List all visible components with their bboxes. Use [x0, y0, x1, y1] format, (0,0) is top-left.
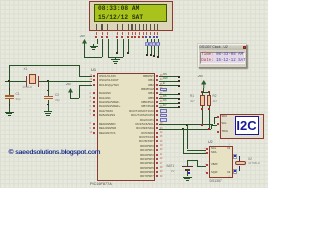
U1 left pins	[93, 75, 95, 77]
wire VEE/RW to ground	[108, 39, 109, 58]
ground (LCD VSS)	[93, 44, 94, 46]
PIC microcontroller U1	[91, 68, 96, 72]
resistor R1	[202, 92, 203, 95]
power +5V (MCLR)	[66, 83, 71, 86]
wire SCL (RC3)	[159, 124, 214, 125]
DS1307 Clock popup window	[198, 44, 248, 68]
U2 crystal pins	[233, 154, 238, 159]
watermark text	[9, 149, 101, 156]
LCD text line 2	[98, 14, 143, 21]
LCD screen	[94, 4, 168, 22]
crystal X2 32768Hz	[239, 156, 240, 161]
wire VSS to ground	[97, 39, 98, 44]
wires LCD D4-D7	[147, 39, 148, 55]
RC0-RC2 net labels	[160, 109, 167, 113]
wire SDA (RC4)	[159, 129, 211, 130]
wire LCD E	[128, 39, 129, 53]
LCD pin labels row	[96, 24, 97, 30]
wire crystal left	[5, 81, 26, 82]
power +5V (pullups)	[198, 75, 203, 78]
RTC DS1307 U2	[208, 141, 213, 145]
RB port wires	[159, 76, 179, 77]
LCD text line 1	[98, 5, 139, 12]
wire LCD RS	[117, 39, 118, 53]
power +5V (LCD VDD)	[80, 35, 85, 38]
crystal X1	[24, 68, 28, 71]
ground (LCD VEE/RW)	[115, 57, 116, 59]
capacitor C1	[9, 88, 11, 90]
capacitor C2	[47, 80, 49, 82]
LCD pin terminals	[95, 36, 97, 38]
U1 right pins	[156, 75, 158, 77]
ground (C1)	[5, 112, 14, 113]
battery BAT1	[167, 165, 175, 168]
I2C debugger	[220, 114, 264, 140]
junction to DS1307 SDA	[182, 128, 184, 130]
popup title bar	[199, 45, 247, 50]
wire crystal right to OSC2	[38, 81, 92, 82]
ground (battery)	[183, 177, 192, 178]
wire OSC1 loop	[79, 65, 80, 77]
LCD module LCD1 (LM016L)	[89, 1, 173, 31]
popup content box	[200, 52, 245, 64]
resistor R2	[209, 92, 210, 95]
popup close button	[243, 46, 247, 50]
ground (C2)	[44, 111, 53, 112]
junction to DS1307 SCL	[186, 124, 188, 126]
I2C label box	[235, 116, 259, 135]
